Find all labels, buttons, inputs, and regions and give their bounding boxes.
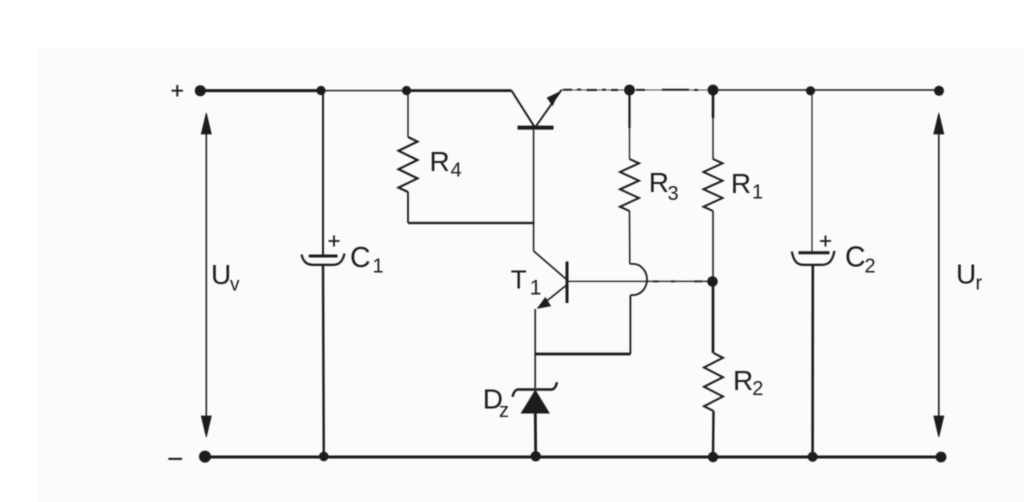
C2 top plate bbox=[799, 251, 830, 254]
C1 polarity + bbox=[329, 236, 340, 247]
label C1 bbox=[350, 242, 384, 278]
label R4 bbox=[430, 146, 462, 182]
label R1 bbox=[731, 168, 763, 204]
node dot: top-right output bbox=[934, 86, 944, 96]
R2 zigzag body bbox=[704, 353, 723, 411]
svg-text:v: v bbox=[230, 275, 240, 296]
wire: top rail input segment (node + to C1 tap) bbox=[200, 89, 321, 92]
node dot: C2 bottom bbox=[808, 452, 818, 462]
svg-text:z: z bbox=[499, 400, 509, 422]
node + (plus terminal symbol) bbox=[172, 85, 184, 97]
label Ur bbox=[956, 259, 983, 295]
node dot: bottom-left bbox=[199, 451, 211, 463]
svg-text:2: 2 bbox=[752, 378, 763, 400]
node dot: C1 bottom bbox=[319, 452, 329, 462]
T2 emitter diagonal bbox=[535, 90, 561, 127]
wire: top rail C1 tap to R4 tap bbox=[321, 90, 407, 92]
C1 top plate bbox=[309, 255, 338, 258]
wire: T1 emitter lead down bbox=[534, 309, 536, 388]
resistor R1 bbox=[704, 90, 723, 282]
wire: bottom rail bbox=[205, 455, 941, 458]
label T1 bbox=[511, 265, 542, 300]
label R3 bbox=[649, 167, 679, 205]
transistor T2 (series pass transistor) bbox=[512, 90, 562, 251]
C2 polarity + bbox=[820, 236, 831, 247]
label C2 bbox=[845, 242, 876, 278]
node dot: R1 top bbox=[708, 85, 719, 96]
Dz cathode bar with bent ends bbox=[513, 382, 558, 397]
svg-text:R: R bbox=[649, 167, 669, 198]
wire: C2 bottom lead bbox=[811, 265, 814, 457]
node dot: R3 top bbox=[624, 85, 635, 96]
wire: C2 top lead bbox=[811, 90, 813, 252]
label Uv bbox=[211, 259, 240, 296]
wire hop over T1 base wire bbox=[630, 264, 647, 295]
C2 bottom plate (curved) bbox=[792, 251, 835, 265]
wire: top rail R4 tap to T2 collector bbox=[407, 89, 512, 92]
svg-text:C: C bbox=[350, 242, 371, 274]
node dot: top-left input bbox=[195, 85, 206, 96]
svg-text:R: R bbox=[733, 365, 753, 396]
resistor R2 bbox=[704, 282, 723, 458]
wire: R4 bottom lead bbox=[407, 192, 409, 223]
svg-text:3: 3 bbox=[668, 183, 679, 205]
wire: R1 bottom lead bbox=[712, 211, 714, 282]
svg-text:U: U bbox=[956, 259, 976, 290]
T1 collector diagonal bbox=[534, 251, 566, 279]
wire: R1 top lead bbox=[712, 90, 715, 118]
C1 bottom plate (curved) bbox=[302, 254, 345, 265]
svg-text:C: C bbox=[845, 242, 866, 274]
svg-text:2: 2 bbox=[865, 256, 876, 278]
arrow Uv (input voltage arrow) bbox=[201, 113, 211, 437]
node dot: bottom-right bbox=[936, 452, 947, 463]
capacitor C2 bbox=[792, 90, 835, 457]
node dot: C2 top bbox=[806, 86, 815, 95]
node dot: R4 top bbox=[402, 86, 411, 95]
label Dz bbox=[483, 384, 509, 423]
wire: R3 hop to thick link bbox=[629, 295, 631, 354]
svg-text:1: 1 bbox=[373, 256, 384, 278]
wire: R2 bottom lead bbox=[712, 411, 715, 457]
node dot: C1 top bbox=[316, 86, 325, 95]
svg-text:T: T bbox=[511, 265, 527, 295]
T1 base bar bbox=[566, 262, 569, 304]
wire: T1 base to R1/R2 junction bbox=[569, 280, 710, 282]
wire: R4 top lead bbox=[407, 91, 409, 137]
svg-text:R: R bbox=[430, 146, 450, 177]
T1 emitter arrow bbox=[538, 298, 551, 309]
T2 emitter arrow bbox=[547, 93, 558, 106]
R3 zigzag body bbox=[620, 159, 639, 211]
svg-text:1: 1 bbox=[530, 277, 542, 300]
T2 base bar bbox=[518, 126, 554, 130]
node dot: Dz bottom bbox=[531, 451, 541, 461]
node - (minus terminal symbol) bbox=[168, 458, 182, 460]
arrow Ur (output voltage arrow) bbox=[934, 113, 944, 437]
wire: top rail output segment (T2 emitter to R3 tap, sketchy) bbox=[561, 89, 713, 91]
wire: R3 bottom lead bbox=[629, 211, 631, 264]
wire: Dz bottom lead bbox=[534, 413, 537, 457]
Dz anode triangle bbox=[522, 391, 550, 414]
node dot: R2 bottom bbox=[708, 452, 718, 462]
resistor R3 bbox=[620, 90, 647, 354]
T1 emitter diagonal bbox=[538, 286, 566, 309]
wire: top rail R1 tap to output node bbox=[713, 89, 939, 91]
R4 zigzag body bbox=[399, 137, 418, 192]
wire: T2 base lead down bbox=[533, 130, 535, 251]
wire: C1 top lead bbox=[322, 91, 324, 255]
wire: R2 top lead bbox=[712, 282, 715, 354]
svg-text:U: U bbox=[211, 259, 231, 290]
svg-text:4: 4 bbox=[451, 160, 462, 182]
label R2 bbox=[733, 365, 763, 400]
R1 zigzag body bbox=[704, 159, 723, 211]
wire: C1 bottom lead bbox=[322, 265, 325, 457]
zener diode Dz bbox=[513, 382, 558, 457]
wire: R4 bottom to T2 base bbox=[408, 222, 535, 224]
capacitor C1 bbox=[302, 91, 345, 457]
T2 collector diagonal bbox=[512, 91, 535, 127]
svg-text:R: R bbox=[731, 168, 751, 199]
resistor R4 bbox=[399, 91, 535, 223]
svg-text:r: r bbox=[976, 273, 983, 295]
wire: emitter node to R3 bottom (thick link) bbox=[535, 353, 630, 356]
node junction R1/R2/T1-base bbox=[707, 276, 718, 287]
svg-text:1: 1 bbox=[752, 182, 763, 204]
transistor T1 bbox=[534, 251, 567, 388]
wire: R3 top lead bbox=[628, 90, 630, 128]
